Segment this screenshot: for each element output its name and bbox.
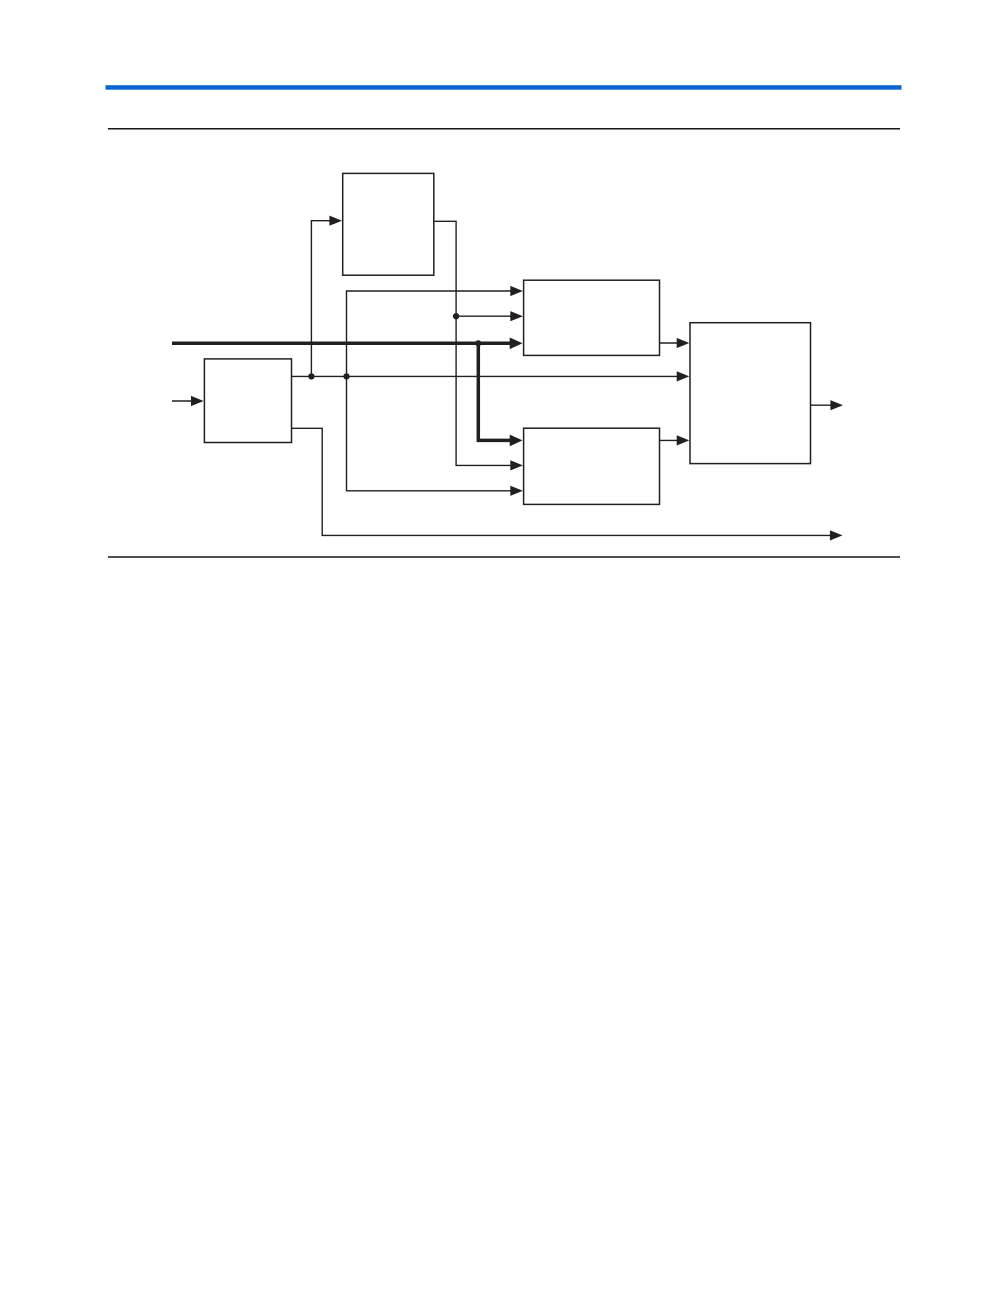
junction dot at 346.5,376.4 — [343, 373, 349, 379]
wire B3 output — [811, 404, 832, 406]
wire B2 output to B3 input1 — [660, 342, 679, 344]
arrowhead into B2 input2 — [510, 311, 523, 321]
arrowhead into B4 input3 — [510, 486, 523, 496]
block B4 (lower middle) — [524, 428, 660, 504]
arrowhead B3 output — [830, 400, 843, 410]
arrowhead into B1 — [329, 216, 342, 226]
wire input to B5 — [172, 400, 193, 402]
arrowhead into B4 input2 — [510, 460, 523, 470]
header blue bar — [106, 85, 902, 90]
block B5 (left) — [204, 359, 291, 443]
block B1 (top) — [343, 173, 434, 275]
top rule — [108, 128, 900, 130]
arrowhead into B2 input1 — [510, 286, 523, 296]
bold branch down to B4 input1 — [478, 343, 510, 440]
wire vertical branch B (x=346.5) — [347, 291, 513, 491]
wire B5 lower output long run — [292, 428, 831, 535]
wire branch to B2 input2 — [456, 315, 512, 317]
bold arrowhead into B2 input3 — [510, 338, 523, 350]
arrowhead long run — [830, 530, 843, 540]
block B3 (right) — [690, 323, 811, 464]
block B2 (upper middle) — [524, 280, 660, 355]
arrowhead into B3 input1 — [677, 338, 690, 348]
wire vertical branch to B1 — [311, 221, 331, 377]
wire B1 output down to B4 input2 — [434, 221, 512, 465]
junction dot at 311.4,376.4 — [308, 373, 314, 379]
wire B4 output to B3 input3 — [660, 439, 679, 441]
arrowhead into B5 — [191, 396, 204, 406]
wire B5 output to B3 input2 — [292, 375, 679, 377]
arrowhead into B3 input3 — [677, 435, 690, 445]
arrowhead into B3 input2 — [677, 371, 690, 381]
bold bus wire into B2 input3 — [172, 342, 511, 346]
junction dot on bold bus — [475, 340, 481, 346]
junction dot at 456.1,316.2 — [453, 313, 459, 319]
bold arrowhead into B4 input1 — [510, 435, 523, 447]
bottom rule — [108, 556, 900, 558]
